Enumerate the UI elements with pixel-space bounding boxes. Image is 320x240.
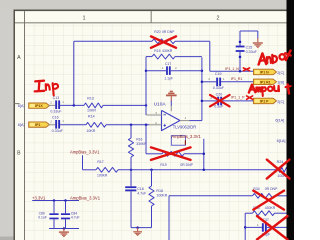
wire C80 bottom stem [53,219,55,228]
wire C19 right lead [221,81,253,83]
pin number 1 (C19) [223,77,225,81]
wire R18 top lead [151,170,153,186]
svg-text:IP1 P: IP1 P [260,99,269,103]
capacitor C16 [55,120,60,129]
resistor R16 (vertical) [128,138,133,157]
resistor R34 [253,193,275,198]
annotation X over C37 [257,216,288,240]
label C17 [165,62,171,66]
label C13 [53,96,60,100]
junction dot R19/stub (203.8,153.8) [203,153,206,156]
label R17 [97,160,103,164]
svg-text:IP1_1_P: IP1_1_P [231,96,245,100]
wire R16 top lead [130,125,132,138]
label R19 [160,163,166,167]
label R18 [156,189,163,193]
value 4.7uF (C84) [71,216,80,220]
value 4.7uF (C18) [137,192,147,196]
annotation X over R34 [253,191,284,210]
svg-text:0.1uF: 0.1uF [38,216,47,220]
pin number 2 (C17 right) [175,66,177,70]
pin 2 line [149,124,162,126]
svg-text:R18: R18 [156,189,163,193]
port P_IP1P (right row 3) [254,98,277,104]
designator U10A [154,101,167,107]
power port arrow AmpBias above U10A [166,91,177,101]
junction dot C80 (54,200.5) [53,199,56,202]
wire ch2 rail (x=245.2) [244,213,246,240]
ground stem (bottom left) [63,229,65,232]
pin number 2 (C37) [269,223,271,227]
wire C15 stem lower [239,52,241,71]
pin number 1 (C13 right) [62,100,64,104]
wire bias node down (x=146) [145,125,147,154]
annotation small x near IP1_1_P [247,96,253,99]
resistor R17 [96,167,118,172]
svg-text:C18: C18 [137,187,144,191]
pin number 2 (C16 left) [50,119,52,123]
wire C13 to R13 [60,104,84,106]
ground symbol (center) [133,231,142,236]
svg-text:C15: C15 [246,45,253,49]
wire R34 row (y=195.8) [169,195,253,197]
net label IP1_R1 [231,77,243,81]
svg-text:1.1pF: 1.1pF [164,76,173,80]
capacitor C19 [216,78,221,87]
resistor R35 [253,211,275,216]
svg-text:0R DNP: 0R DNP [162,30,175,34]
junction dot at feedback tap (73.8,105.4) [73,104,76,107]
svg-text:2: 2 [217,15,220,21]
value 0R DNP (R34) [265,187,278,191]
net label AmpBias_3.3V1 (bottom) [70,195,101,200]
svg-text:0.33uF: 0.33uF [246,50,258,54]
wire C37 right lead [267,226,290,228]
value 0.33uF (C15) [246,50,258,54]
wire bias to R19 [146,153,162,155]
sheet inner border lines [23,11,26,240]
wire output rail (x=201.9) [201,57,203,120]
cross-ref 6[1A] upper [275,118,284,122]
pin 3 line [146,114,162,116]
svg-text:TLV9062IDR: TLV9062IDR [173,125,196,130]
annotation X over R19 [151,147,191,160]
cross-ref 6[1A] lower [277,139,286,143]
svg-text:R15: R15 [154,49,160,53]
svg-text:+3.3V1: +3.3V1 [32,195,46,200]
port P_IP1R1 (right row 2) [254,79,277,85]
wire R14 to op-amp pin2 [106,124,149,126]
value 0.33uF (C13) [50,110,62,114]
svg-text:0R DNP: 0R DNP [265,187,278,191]
op-amp minus sign (top input) [163,114,166,116]
svg-text:430KR: 430KR [265,206,276,210]
svg-text:R20: R20 [154,30,160,34]
value TLV9062IDR [173,125,196,130]
junction dot bias tap (146,124.8) [145,124,148,127]
svg-text:0.33uF: 0.33uF [50,110,62,114]
svg-text:IP1: IP1 [35,123,40,127]
svg-text:C17: C17 [165,62,171,66]
pin 1 output line [180,120,190,122]
port P_IN1X (left input row 1) [29,103,50,108]
label R20 [154,30,160,34]
port P_IN1 (left input row 2) [29,122,50,127]
svg-text:0.33uF: 0.33uF [213,86,225,90]
cross-ref 6[A] row2 [18,123,25,127]
annotation handwritten And out [259,51,291,65]
window chrome gray strips [0,0,294,10]
cross-ref 6[A] row1 [18,104,25,108]
junction dot ground tap (137.6,227.6) [136,226,139,229]
svg-text:10KR: 10KR [87,109,96,113]
wire C15 stem upper [239,31,241,46]
annotation X over C20 [210,95,230,107]
capacitor C80 [49,213,58,219]
svg-text:1[B]: 1[B] [277,81,284,85]
label R13 [87,97,94,101]
capacitor C18 [125,186,136,191]
value 330KR (R16) [136,142,147,146]
wire ch2 vertical (x=169) [168,196,170,240]
op-amp U10A triangle [162,110,181,130]
value 0.33uF (C16) [52,129,64,133]
label R24 [277,160,284,164]
annotation handwritten Amp out [249,84,291,96]
svg-text:2[C]: 2[C] [277,100,284,104]
wire feedback left rail (x=146) [145,57,147,115]
wire R18 bottom lead [151,206,153,228]
svg-text:100KR: 100KR [97,174,108,178]
wire C84 bottom stem [65,219,67,228]
wire R20 right lead [175,40,210,42]
wire C84 top stem [65,201,67,214]
value 100KR (R18) [156,194,167,198]
svg-text:C20: C20 [216,92,223,96]
junction dot C15 pin1 (240,41.9) [239,41,242,44]
svg-text:430KR: 430KR [162,49,173,53]
junction dot C17 left (146,70.7) [145,69,148,72]
value 1.1pF (C37) [262,232,271,236]
svg-text:IP1_1_N: IP1_1_N [225,67,239,71]
wire C18 top lead [130,170,132,187]
wire R20 bypass down (x=209.8) [209,41,211,71]
wire node A up (x=73.8) [73,41,75,105]
ground symbol (top right) [253,42,263,48]
resistor R13 [84,103,103,108]
svg-text:R13: R13 [87,97,94,101]
pin number 1 (C17 left) [162,66,164,70]
wire bottom rail (y=227.6) [131,227,152,229]
wire R21 left lead [146,56,152,58]
pin number 2 (C13 left) [50,101,52,105]
label C84 [71,211,77,215]
pin number 3 [155,111,157,115]
value 0R DNP (R19) [180,163,193,167]
wire R21 right lead [175,56,202,58]
resistor R14 [86,122,106,127]
cross-ref 2[C] row1 [277,71,284,75]
black strip right edge [287,0,295,240]
wire power rail (y=200.5) [32,200,79,202]
label C20 [216,92,223,96]
junction dot ch2 (245.2,227.4) [244,226,247,229]
wire C17 right lead [171,70,202,72]
svg-text:C13: C13 [53,96,60,100]
net label IP1_1_N [225,67,239,71]
junction dot C15 pin2 (240,56.9) [239,56,242,59]
svg-text:R19: R19 [160,163,166,167]
capacitor C17 [166,66,171,75]
wire gnd drop (x=257.8) [257,31,259,39]
junction dot gnd tap (63.9,228.5) [63,227,66,230]
value 0.33uF (C19) [213,86,225,90]
label C18 [137,187,144,191]
pin number 1 (C37) [257,223,259,227]
wire AmpBias stub left (x=82.5) [82,155,84,170]
cross-ref 1[B] row2 [277,81,284,85]
svg-text:1: 1 [83,15,86,21]
label C37 [263,218,269,222]
pin number 1 (C20) [224,96,226,100]
wire R13 to node A [103,104,146,106]
resistor R24 [276,167,290,172]
value 100KR (R24) [277,174,288,178]
junction dot C19 row (201.9,81.8) [201,81,204,84]
value 10KR (R13) [87,109,96,113]
junction dot rail/C17 (201.9,70.7) [201,69,204,72]
op-amp power pin [170,100,172,111]
ground symbol (bottom left) [59,231,69,237]
sheet outer border lines [14,10,295,12]
wire R34 right lead [275,195,291,197]
ground stem (top right) [257,38,259,42]
svg-text:AmpBias_3.3V1: AmpBias_3.3V1 [70,150,100,155]
annotation X over R24 [267,160,290,179]
svg-text:R17: R17 [97,160,103,164]
pin number 1 (op-amp out) [185,116,187,120]
value 100KR (R17) [97,174,108,178]
svg-text:AmpBias_3.3V1: AmpBias_3.3V1 [70,195,101,200]
wire AmpBias stub (x=203.8) [203,139,205,170]
pin number 2 (C20) [210,96,212,100]
svg-text:IP1 R1: IP1 R1 [260,80,271,84]
wire C15 top (y=31) [240,30,258,32]
svg-text:6[1A]: 6[1A] [275,118,284,122]
svg-text:4.7uF: 4.7uF [71,216,80,220]
wire R16 bottom lead [130,157,132,170]
value 10KR (R14) [86,129,95,133]
resistor R18 (vertical) [149,186,154,206]
junction dot C84 (65.5,200.5) [64,199,67,202]
pin number 1 (C16 right) [62,119,64,123]
net label AmpBias_3.3V1 (at op-amp) [171,134,201,145]
svg-text:10KR: 10KR [86,129,95,133]
resistor R21 [152,54,175,59]
op-amp plus sign (bottom input) [163,124,166,127]
wire AmpBias long right segment [118,169,276,171]
svg-text:R24: R24 [277,160,284,164]
value 0.1uF (C80) [38,216,47,220]
label C15 [246,45,253,49]
pin number 2 (C19) [208,77,210,81]
zone divider ticks [150,11,153,22]
annotation small x near IP1_1_N [243,68,249,71]
svg-text:2[C]: 2[C] [277,71,284,75]
label C16 [52,115,59,119]
value 0.3uF (C20) [214,105,224,109]
junction dot node A (146,105.4) [145,104,148,107]
resistor R20 [152,39,175,44]
junction dot C18 tap (131,169.8) [130,169,133,172]
svg-text:4.7uF: 4.7uF [137,192,147,196]
wire C17 left lead [146,70,166,72]
port P_IP1N (right row 1) [254,69,277,75]
svg-text:0.3uF: 0.3uF [214,105,224,109]
svg-text:6[A]: 6[A] [18,123,25,127]
label R16 [136,138,142,142]
net label +3.3V1 [32,195,46,200]
wire feedback top (y=41.3) [74,40,152,42]
capacitor C20 [217,97,222,106]
label R35 [253,206,259,210]
cross-ref 2[C] row3 [277,100,284,104]
capacitor C13 [55,100,60,109]
wire bottom rail left (y=228.5) [49,228,79,230]
svg-text:0R DNP: 0R DNP [180,163,193,167]
label C19 [215,72,222,76]
wire C80 top stem [53,201,55,214]
wire R19 right lead [184,153,204,155]
svg-text:330KR: 330KR [136,142,147,146]
svg-text:C19: C19 [215,72,222,76]
label C80 [39,211,45,215]
wire C20 right lead [222,100,253,102]
svg-text:B: B [17,150,21,156]
capacitor C37 [262,223,267,232]
svg-text:100KR: 100KR [156,194,167,198]
value 430KR (R35) [265,206,276,210]
wire N row (y=71.2) [210,70,254,72]
label R21 [154,49,160,53]
pin wire port to C16 [49,124,56,126]
wire C37 left lead [245,226,262,228]
resistor R19 [162,151,184,156]
annotation handwritten Inp [35,81,58,96]
svg-text:0.33uF: 0.33uF [52,129,64,133]
svg-text:C16: C16 [52,115,59,119]
wire C20 left lead [202,100,217,102]
net label AmpBias_3.3V1 (left) [70,150,100,155]
svg-text:U10A: U10A [154,101,167,107]
label R14 [88,115,95,119]
wire C19 left lead [202,81,216,83]
wire R35 left lead [245,212,252,214]
label R34 [253,187,259,191]
svg-text:IP1 N: IP1 N [260,70,269,74]
svg-text:IP1_R1: IP1_R1 [231,77,243,81]
annotation X over R20 [151,36,176,47]
junction dot R16 tap (131,124.8) [130,124,133,127]
junction dot C20 row (201.9,100.9) [201,100,204,103]
wire AmpBias long left segment [83,169,97,171]
svg-text:6[A]: 6[A] [18,104,25,108]
junction dot R18 tap (151.5,169.8) [150,169,153,172]
value 430KR (R21) [162,49,173,53]
wire output to rail [190,120,202,122]
value 1.1pF (C17) [164,76,173,80]
svg-text:AmpBias_3.3V1: AmpBias_3.3V1 [171,134,201,139]
svg-text:6[1A]: 6[1A] [277,139,286,143]
wire R35 right lead [275,212,291,214]
capacitor C15 [236,46,245,52]
junction dot C15/N row (240,71.2) [239,70,242,73]
net label IP1_1_P [231,96,245,100]
wire C16 to R14 [60,124,86,126]
pin number 2 (op-amp) [155,121,157,125]
junction dot stub tap (203.8,169.8) [203,169,206,172]
ground stem (center) [137,228,139,232]
svg-text:IP1X: IP1X [35,104,43,108]
svg-text:A: A [17,55,21,61]
svg-text:R14: R14 [88,115,95,119]
value 0R DNP (R20) [162,30,175,34]
capacitor C84 [61,213,70,219]
pin wire port to C13 [49,104,56,106]
wire C18 bottom lead [130,191,132,227]
